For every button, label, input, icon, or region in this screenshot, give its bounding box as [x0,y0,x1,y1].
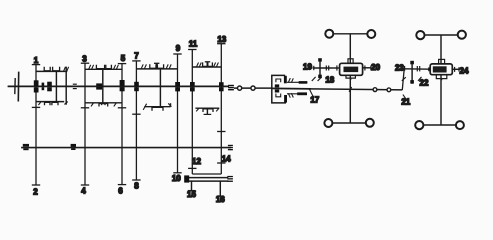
svg-text:16: 16 [216,195,225,204]
svg-text:22: 22 [420,78,429,87]
svg-text:23: 23 [395,64,404,73]
svg-text:6: 6 [118,186,123,195]
svg-text:15: 15 [187,190,196,199]
svg-text:12: 12 [192,157,201,166]
svg-text:10: 10 [172,174,181,183]
svg-text:24: 24 [460,66,469,75]
svg-text:20: 20 [371,63,380,72]
svg-text:2: 2 [33,188,38,197]
svg-text:8: 8 [134,181,139,190]
svg-text:9: 9 [176,44,181,53]
svg-text:14: 14 [222,155,231,164]
svg-text:4: 4 [81,186,86,195]
svg-text:18: 18 [325,76,334,85]
svg-text:5: 5 [121,54,126,63]
svg-text:17: 17 [310,95,319,104]
svg-text:21: 21 [401,98,410,107]
svg-text:7: 7 [134,51,139,60]
svg-text:3: 3 [82,55,87,64]
svg-text:11: 11 [189,39,198,48]
svg-text:19: 19 [303,63,312,72]
svg-text:13: 13 [217,35,226,44]
svg-text:1: 1 [34,56,39,65]
